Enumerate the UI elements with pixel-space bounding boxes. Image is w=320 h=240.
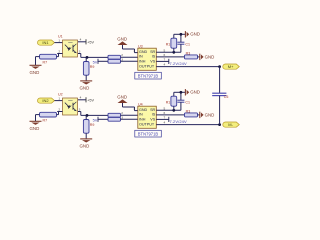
wire: node A to pulldown: [85, 115, 87, 119]
U3 pin 1 number: [133, 49, 135, 53]
svg-text:OUTPUT: OUTPUT: [139, 122, 155, 126]
wire: U4 SR pin: [156, 109, 181, 111]
resistor R (INH series): [108, 117, 121, 121]
resistor R (IN series): [108, 113, 121, 117]
svg-text:5V: 5V: [93, 117, 98, 122]
comment BTN7971B U4: [135, 130, 162, 137]
svg-text:7.2V/24V: 7.2V/24V: [170, 119, 187, 124]
resistor R (LED series): [40, 54, 57, 64]
svg-text:GND: GND: [117, 94, 127, 99]
resistor R (INH series): [108, 59, 121, 63]
ground GND (IS): [200, 54, 215, 60]
U3 pin 6 number: [164, 53, 166, 57]
U4 pin 4 number: [164, 121, 166, 125]
wire: C bottom stem: [180, 102, 182, 110]
svg-text:5: 5: [164, 48, 166, 52]
node M- junction: [218, 123, 221, 126]
svg-text:GND: GND: [190, 90, 200, 95]
resistor R (IS sense): [185, 51, 198, 59]
svg-text:4: 4: [80, 38, 82, 42]
ground GND (input side): [30, 65, 42, 75]
node A junction: [86, 56, 89, 59]
wire: node A to pulldown: [85, 57, 87, 61]
U2 pin 2 number: [58, 107, 60, 111]
U1 pin 1 number: [58, 39, 60, 43]
U2 pin 4 stub: [78, 99, 86, 101]
U4 pin 6 number: [164, 111, 166, 115]
wire: R top: [173, 34, 175, 38]
svg-text:R3: R3: [186, 51, 191, 55]
svg-text:6: 6: [164, 53, 166, 57]
wire: R to GND: [36, 115, 40, 121]
svg-text:VS: VS: [150, 117, 155, 121]
U4 pin 5 number: [164, 106, 166, 110]
U3 pin 7 number: [164, 58, 166, 62]
svg-text:5V: 5V: [93, 59, 98, 64]
port M-: [223, 122, 240, 127]
wire: pin 3 to node A: [81, 114, 108, 116]
wire: pulldown to GND: [85, 133, 87, 138]
svg-text:7: 7: [164, 116, 166, 120]
svg-text:M-: M-: [228, 122, 233, 127]
resistor R (SR): [166, 38, 177, 48]
svg-text:GND: GND: [205, 112, 215, 117]
power +5V: [86, 39, 95, 44]
designator U3: [138, 45, 143, 49]
half-bridge IC U3: [138, 48, 157, 70]
resistor R (IN series): [108, 55, 121, 59]
designator U2: [58, 92, 63, 96]
wire: C bottom stem: [180, 44, 182, 52]
U4 pin 2 number: [121, 111, 123, 115]
optocoupler U2: [63, 98, 78, 115]
svg-text:6: 6: [164, 111, 166, 115]
ground GND (SR filter): [185, 89, 200, 95]
wire: R top: [173, 92, 175, 96]
wire: U3 SR pin: [156, 51, 181, 53]
svg-text:3: 3: [79, 107, 81, 111]
power GND (logic): [117, 36, 127, 45]
svg-text:IS: IS: [152, 55, 156, 59]
power 7.2V/24V: [169, 117, 187, 124]
wire: R to U4 IN: [121, 114, 138, 116]
junction SR-R: [172, 51, 175, 54]
svg-text:GND: GND: [139, 108, 148, 112]
U4 pin 7 number: [164, 116, 166, 120]
svg-text:R7: R7: [43, 60, 48, 64]
wire: R bottom: [173, 48, 175, 52]
designator U1: [58, 34, 63, 38]
svg-text:INH: INH: [139, 59, 146, 63]
wire: R bottom: [173, 106, 175, 110]
svg-text:R3: R3: [186, 109, 191, 113]
resistor R (pulldown): [83, 120, 94, 134]
U2 pin 4 number: [80, 96, 82, 100]
svg-text:GND: GND: [30, 70, 40, 75]
resistor R (pulldown): [83, 62, 94, 76]
U1 pin 4 stub: [78, 41, 86, 43]
svg-text:4: 4: [164, 121, 166, 125]
svg-text:U4: U4: [138, 103, 143, 107]
wire: GND to U3 pin 1: [123, 45, 138, 53]
svg-text:R9: R9: [90, 65, 95, 69]
svg-text:IN1: IN1: [42, 40, 49, 45]
ground GND (IS): [200, 112, 215, 118]
wire: R to GND: [36, 57, 40, 65]
U1 pin 2 stub: [57, 53, 62, 55]
svg-text:1: 1: [133, 107, 135, 111]
svg-text:4: 4: [164, 63, 166, 67]
wire: pulldown to GND: [85, 75, 87, 80]
resistor R (IS sense): [185, 109, 198, 117]
wire: R to U3 IN: [121, 56, 138, 58]
wire: IN2 port to U2 pin 1: [55, 100, 63, 102]
svg-text:2: 2: [58, 107, 60, 111]
svg-text:7: 7: [164, 58, 166, 62]
svg-text:BTN7971B: BTN7971B: [138, 132, 159, 137]
svg-text:GND: GND: [190, 32, 200, 37]
wire: R to pin 2: [57, 54, 59, 57]
svg-text:3: 3: [121, 57, 123, 61]
wire: R to GND arrow: [198, 114, 200, 116]
wire: C top stem: [180, 92, 182, 100]
svg-text:5: 5: [164, 106, 166, 110]
wire: R to pin 2: [57, 112, 59, 115]
svg-text:GND: GND: [139, 50, 148, 54]
svg-text:4: 4: [80, 96, 82, 100]
svg-text:IS: IS: [152, 113, 156, 117]
svg-text:OUTPUT: OUTPUT: [139, 64, 155, 68]
svg-text:7.2V/24V: 7.2V/24V: [170, 61, 187, 66]
U1 pin 3 number: [79, 49, 81, 53]
wire: motor bus lower: [219, 96, 221, 125]
U2 pin 3 number: [79, 107, 81, 111]
ground GND (pulldown): [80, 139, 93, 149]
svg-text:GND: GND: [30, 126, 40, 131]
ground GND (SR filter): [185, 31, 200, 37]
svg-text:+5V: +5V: [87, 99, 94, 103]
wire: RC top to GND: [174, 33, 185, 35]
svg-text:U3: U3: [138, 45, 143, 49]
svg-text:M+: M+: [228, 64, 234, 69]
wire: C top stem: [180, 34, 182, 42]
junction RC top: [180, 91, 183, 94]
U3 pin 5 number: [164, 48, 166, 52]
wire: IN1 port to U1 pin 1: [55, 42, 63, 44]
wire: R to U4 INH: [121, 118, 138, 120]
svg-text:3: 3: [79, 49, 81, 53]
svg-text:C5: C5: [224, 95, 229, 99]
capacitor C (SR): [177, 100, 190, 104]
junction RC top: [180, 33, 183, 36]
svg-text:R1: R1: [166, 100, 171, 104]
svg-text:GND: GND: [80, 85, 90, 90]
U2 pin 1 number: [58, 97, 60, 101]
node A junction: [86, 114, 89, 117]
U4 pin 3 number: [121, 115, 123, 119]
wire: U4 IS pin: [156, 114, 184, 116]
svg-text:IN: IN: [139, 55, 143, 59]
svg-text:R9: R9: [90, 123, 95, 127]
wire: R to U3 INH: [121, 60, 138, 62]
svg-text:GND: GND: [205, 54, 215, 59]
wire: U3 IS pin: [156, 56, 184, 58]
power GND (logic): [117, 94, 127, 103]
svg-text:2: 2: [58, 49, 60, 53]
designator U4: [138, 103, 143, 107]
svg-text:1: 1: [58, 39, 60, 43]
svg-text:GND: GND: [80, 143, 90, 148]
power 7.2V/24V: [169, 59, 187, 66]
junction SR-R: [172, 109, 175, 112]
svg-text:R1: R1: [166, 42, 171, 46]
svg-text:2: 2: [121, 111, 123, 115]
wire: R to GND arrow: [198, 56, 200, 58]
U1 pin 4 number: [80, 38, 82, 42]
svg-text:BTN7971B: BTN7971B: [138, 74, 159, 79]
svg-text:1: 1: [58, 97, 60, 101]
svg-text:C1: C1: [185, 42, 190, 46]
U2 pin 3 stub: [78, 112, 81, 116]
node M+ junction: [218, 65, 221, 68]
svg-text:R7: R7: [43, 118, 48, 122]
wire: U4 VS pin: [156, 118, 169, 120]
svg-text:SR: SR: [150, 50, 155, 54]
power 5V: [93, 117, 98, 123]
svg-text:C1: C1: [185, 100, 190, 104]
svg-text:INH: INH: [139, 117, 146, 121]
wire: 5V to R-INH: [98, 118, 108, 120]
svg-text:2: 2: [121, 53, 123, 57]
U1 pin 3 stub: [78, 54, 81, 58]
wire: RC top to GND: [174, 91, 185, 93]
resistor R (SR): [166, 96, 177, 106]
svg-text:GND: GND: [117, 36, 127, 41]
wire: U3 VS pin: [156, 60, 169, 62]
comment BTN7971B U3: [135, 72, 162, 79]
svg-text:VS: VS: [150, 59, 155, 63]
port IN2: [37, 98, 54, 103]
svg-text:1: 1: [133, 49, 135, 53]
power +5V: [86, 97, 95, 102]
ground GND (pulldown): [80, 81, 93, 91]
port M+: [223, 64, 239, 69]
optocoupler U1: [63, 40, 78, 57]
capacitor C (SR): [177, 42, 190, 46]
wire: GND to U4 pin 1: [123, 103, 138, 111]
svg-text:IN2: IN2: [42, 98, 49, 103]
wire: U4 OUTPUT to motor node: [156, 124, 219, 126]
U3 pin 2 number: [121, 53, 123, 57]
wire: motor bus upper: [219, 67, 221, 94]
U3 pin 3 number: [121, 57, 123, 61]
ground GND (input side): [30, 121, 42, 131]
U1 pin 2 number: [58, 49, 60, 53]
half-bridge IC U4: [138, 106, 157, 128]
U2 pin 2 stub: [57, 111, 62, 113]
svg-text:IN: IN: [139, 113, 143, 117]
capacitor C5 (across motor): [212, 93, 228, 99]
wire: pin 3 to node A: [81, 56, 108, 58]
wire: U3 OUTPUT to motor node: [156, 66, 219, 68]
wire: 5V to R-INH: [98, 60, 108, 62]
svg-text:3: 3: [121, 115, 123, 119]
svg-text:SR: SR: [150, 108, 155, 112]
port IN1: [38, 40, 55, 45]
U4 pin 1 number: [133, 107, 135, 111]
power 5V: [93, 59, 98, 65]
U3 pin 4 number: [164, 63, 166, 67]
resistor R (LED series): [40, 112, 57, 122]
svg-text:+5V: +5V: [87, 41, 94, 45]
